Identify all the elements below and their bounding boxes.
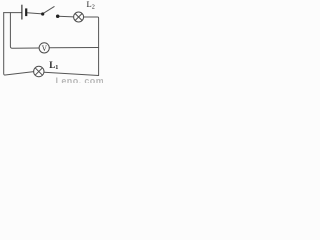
svg-text:V: V [42, 43, 48, 53]
svg-text:Leno. com: Leno. com [56, 76, 104, 83]
